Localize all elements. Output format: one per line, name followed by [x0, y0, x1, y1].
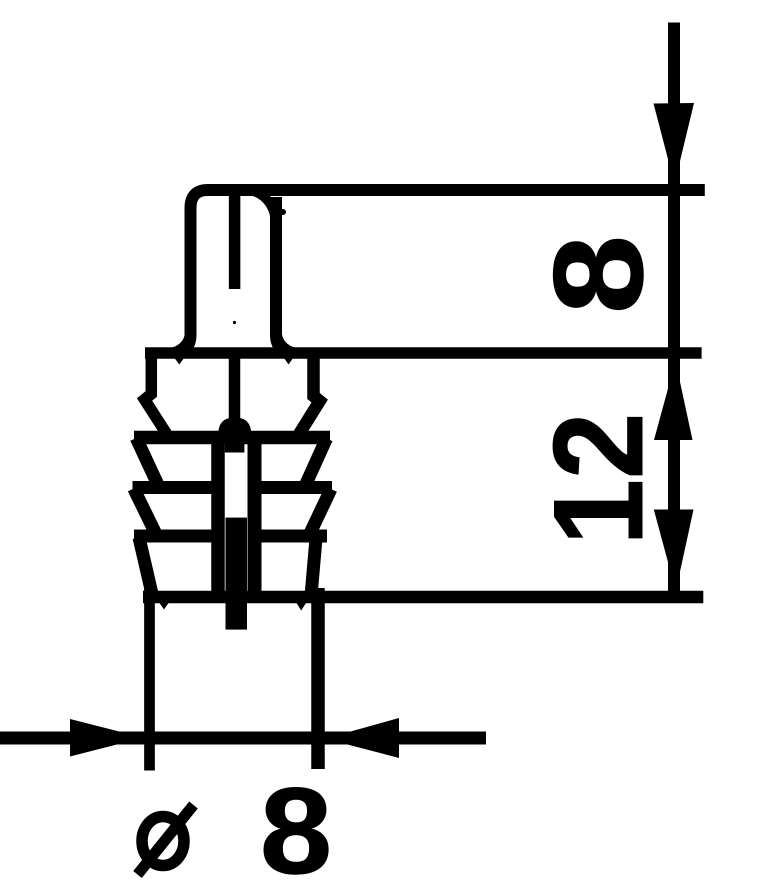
middle arrow pointing down	[654, 510, 694, 592]
ring line L2 right	[248, 481, 332, 494]
notch below bottom line right	[297, 603, 307, 611]
slot inner edge right	[248, 433, 262, 597]
label 8 rotated	[527, 235, 669, 314]
row4 right outer edge	[311, 539, 316, 597]
bottom line L4	[143, 591, 703, 604]
svg-text:12: 12	[528, 413, 670, 546]
row1 right outer edge with barb	[299, 353, 320, 435]
slot inner edge left	[211, 433, 225, 597]
row4 left outer edge	[139, 538, 153, 597]
flange line L0	[145, 347, 702, 359]
row2 left barb diagonal	[136, 438, 158, 486]
diameter symbol slash	[138, 805, 194, 875]
notch below flange left	[175, 358, 185, 365]
notch below flange right	[284, 358, 293, 365]
rod dome cap	[218, 418, 251, 435]
scan speck near pin slot	[233, 321, 236, 324]
top arrow pointing down	[654, 103, 695, 184]
diameter symbol circle	[142, 817, 184, 866]
left extension line	[144, 588, 155, 771]
row2 right barb diagonal	[305, 439, 327, 487]
scan speck on pin right edge	[280, 209, 286, 215]
ring line L3 left	[134, 530, 224, 543]
ring line L2 left	[133, 481, 225, 494]
rod upper segment	[229, 358, 241, 420]
pin right edge	[276, 197, 289, 353]
label 12 rotated	[528, 413, 670, 546]
pin bottom-right outer fillet	[282, 334, 299, 349]
middle arrow pointing up	[654, 361, 693, 440]
pin bottom-left outer fillet	[168, 332, 185, 349]
pin cap outline: top line with rounded left corner and left edge	[179, 190, 705, 353]
row3 right barb diagonal	[310, 489, 331, 534]
diameter arrow right	[325, 718, 399, 758]
ring line L1	[134, 431, 330, 445]
rod lower segment	[226, 518, 248, 630]
notch below bottom line left	[160, 603, 169, 610]
diameter dimension line	[0, 732, 486, 745]
row1 left outer edge with barb	[145, 353, 169, 436]
label 8 bottom	[260, 762, 332, 883]
diameter arrow left	[70, 719, 144, 757]
svg-text:8: 8	[527, 235, 669, 314]
pin slot line	[229, 194, 241, 289]
right extension line	[311, 588, 325, 769]
rod stub below L1	[225, 443, 245, 453]
row3 left barb diagonal	[134, 489, 157, 536]
pin top-right inner fillet	[250, 195, 271, 218]
svg-text:8: 8	[260, 762, 332, 883]
vertical dimension line	[668, 23, 680, 598]
ring line L3 right	[248, 530, 327, 543]
